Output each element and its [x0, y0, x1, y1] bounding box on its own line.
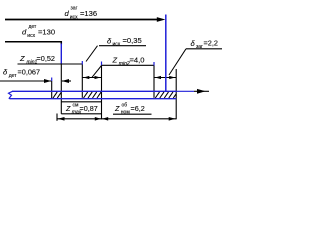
- svg-text:Z: Z: [112, 56, 118, 65]
- svg-text:=4,0: =4,0: [130, 56, 145, 65]
- svg-text:Z: Z: [19, 54, 25, 63]
- svg-text:исх: исх: [113, 42, 121, 48]
- label Z_min1 = 0,52: [19, 54, 55, 65]
- svg-text:=2,2: =2,2: [204, 39, 218, 48]
- leader of delta_zag: [169, 49, 186, 75]
- svg-text:дет: дет: [29, 24, 38, 30]
- svg-text:заг: заг: [71, 6, 78, 12]
- underline of Z_nom: [113, 113, 152, 115]
- hatch allowance 1: [53, 92, 61, 98]
- surface line B (x=82.3) blue tip: [81, 61, 83, 65]
- svg-text:см: см: [73, 102, 80, 108]
- surface line C black: [101, 65, 103, 119]
- shelf line of Z_min1: [18, 63, 83, 65]
- svg-text:исх: исх: [70, 14, 78, 20]
- surface line C (x=100.3) blue tip: [101, 62, 103, 66]
- bottom right arrowhead: [169, 117, 176, 121]
- svg-text:об: об: [122, 102, 128, 108]
- arrowhead of d136 pointing right: [157, 17, 166, 22]
- dimension line delta_det left with arrow: [0, 79, 51, 83]
- hatch allowance 2: [84, 92, 102, 98]
- svg-text:дет: дет: [9, 73, 18, 79]
- svg-text:=6,2: =6,2: [131, 104, 145, 113]
- blank surface line G blue (x=165.8): [165, 15, 167, 92]
- label Z_min2 = 4,0: [112, 56, 145, 67]
- label Z_max = 0,87: [65, 102, 98, 115]
- dimension line Z_zag with outward arrows: [154, 76, 176, 79]
- delta_isx label: [107, 36, 142, 47]
- svg-text:Z: Z: [65, 104, 71, 113]
- surface line A black lower: [60, 64, 62, 114]
- svg-text:исх: исх: [27, 33, 35, 39]
- svg-text:=0,35: =0,35: [123, 36, 142, 45]
- surface line D black: [51, 81, 53, 99]
- underline of Z_max: [61, 113, 101, 115]
- svg-text:=130: =130: [38, 28, 55, 37]
- leader of Z_min2: [92, 66, 102, 78]
- bottom middle arrowhead left: [95, 117, 101, 121]
- bottom middle arrowhead right: [102, 117, 108, 121]
- surface line E black: [153, 66, 155, 98]
- underline of delta_zag: [186, 48, 222, 50]
- svg-text:min2: min2: [119, 61, 130, 67]
- underline of delta_isx: [99, 45, 146, 47]
- svg-text:Z: Z: [114, 104, 120, 113]
- dimension line d130: [5, 42, 61, 45]
- svg-text:=136: =136: [80, 9, 97, 18]
- bar right extension blue: [176, 90, 194, 92]
- bottom left arrowhead: [58, 117, 65, 121]
- leader of delta_isx: [86, 46, 98, 62]
- label delta_det = 0,067: [3, 68, 40, 79]
- delta_zag label: [191, 39, 218, 51]
- bottom left end tick: [56, 114, 58, 121]
- svg-text:=0,52: =0,52: [37, 54, 55, 63]
- label d_isx^det = 130: [22, 24, 55, 39]
- bar left break zigzag: [9, 91, 13, 98]
- shelf line of Z_min2: [102, 64, 154, 66]
- direction line black with arrow: [194, 89, 209, 94]
- dimension line Z_min2 with outward arrows: [82, 76, 101, 79]
- svg-text:=0,067: =0,067: [18, 68, 41, 77]
- label Z_nom = 6,2: [114, 102, 145, 115]
- bracket top line below bar: [61, 101, 101, 103]
- bar bottom edge blue: [10, 98, 177, 100]
- dimension line delta_det right with arrow: [62, 79, 71, 83]
- dimension line d136 (top): [5, 19, 160, 21]
- bar top edge blue: [12, 90, 176, 92]
- surface line D (x=51.7) blue tip: [51, 78, 53, 82]
- bottom dimension line: [57, 118, 176, 120]
- surface line A blue upper (x=61.3): [60, 44, 62, 65]
- surface line B black: [81, 65, 83, 98]
- surface line E (x=154) blue tip: [153, 62, 155, 66]
- surface line F (x=176.2): [175, 69, 177, 119]
- label d_isx^zag = 136: [65, 6, 98, 21]
- svg-text:=0,87: =0,87: [80, 104, 98, 113]
- hatch allowance 3: [155, 92, 176, 98]
